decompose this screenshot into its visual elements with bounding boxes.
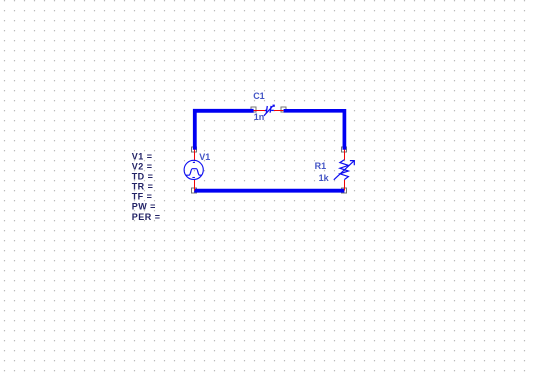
terminal square R1 pin 2 (bottom) (342, 188, 347, 193)
svg-text:C1: C1 (253, 91, 265, 101)
wire bottom segment (V1 to R1) (194, 189, 344, 193)
svg-text:TF =: TF = (132, 192, 153, 202)
svg-text:1n: 1n (254, 112, 265, 122)
svg-text:TR =: TR = (132, 182, 154, 192)
svg-text:V2 =: V2 = (132, 162, 153, 172)
svg-text:PW =: PW = (132, 202, 156, 212)
wire top-left segment (C1 to V1) (195, 111, 254, 150)
terminal square C1 pin 1 (left) (251, 107, 256, 112)
pulse voltage source V1 (184, 150, 203, 191)
wire top-right segment (C1 to R1) (284, 111, 345, 150)
terminal square C1 pin 2 (right) (281, 107, 286, 112)
svg-text:TD =: TD = (132, 172, 154, 182)
capacitor C1 (variable) (254, 105, 284, 116)
svg-text:1k: 1k (319, 173, 330, 183)
svg-text:R1: R1 (315, 161, 327, 171)
terminal square V1 pin 2 (bottom) (192, 188, 197, 193)
pulse source parameter text block (132, 152, 161, 222)
terminal square R1 pin 1 (top) (342, 147, 347, 152)
resistor R1 (variable) (334, 150, 355, 191)
terminal square V1 pin 1 (top) (192, 147, 197, 152)
svg-text:PER =: PER = (132, 212, 161, 222)
svg-text:V1 =: V1 = (132, 152, 153, 162)
svg-text:V1: V1 (199, 152, 210, 162)
